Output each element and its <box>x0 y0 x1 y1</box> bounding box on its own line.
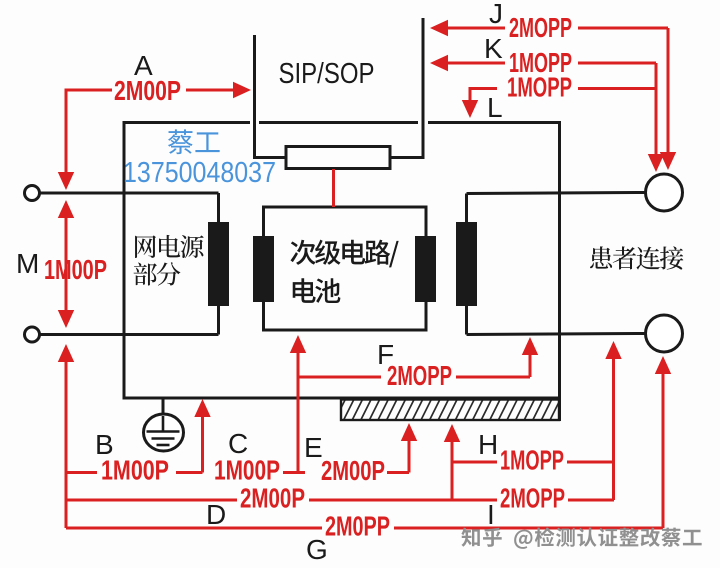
svg-text:D: D <box>206 499 226 530</box>
svg-text:2M00P: 2M00P <box>114 75 181 106</box>
svg-text:H: H <box>478 429 498 460</box>
svg-text:1M00P: 1M00P <box>44 254 107 285</box>
wire: patient circuit to lower applied-part terminal <box>467 334 646 335</box>
svg-text:2M00P: 2M00P <box>321 455 385 486</box>
label: patient connection (患者连接) <box>590 246 683 269</box>
measurement E right arrow to barrier <box>387 471 409 474</box>
secondary circuit box <box>264 207 427 330</box>
svg-text:2MOPP: 2MOPP <box>500 483 565 514</box>
SIP/SOP right lead wire <box>422 18 425 159</box>
svg-text:M: M <box>16 248 39 279</box>
svg-text:1MOPP: 1MOPP <box>500 445 564 476</box>
red bus: left vertical from neutral down to rows B/D/G <box>58 344 74 362</box>
measurement B row (1M00P) <box>66 471 97 474</box>
measurement C arrow (1M00P to enclosure bottom) <box>201 413 204 473</box>
watermark: blue 蔡工 <box>168 129 220 154</box>
label: mains part (网电源 部分) <box>135 235 204 258</box>
svg-text:K: K <box>484 33 503 64</box>
measurement F (2MOPP to patient wire) <box>298 376 381 379</box>
measurement E arrow (2M00P to secondary circuit) <box>283 471 305 474</box>
label: secondary circuit / battery (次级电路/电池) <box>290 240 398 268</box>
measurement H bracket (1MOPP) <box>451 438 454 500</box>
transformer primary winding W1 (mains side) <box>208 222 229 306</box>
measurement M line (1M00P between mains terminals) <box>58 200 74 218</box>
measurement A line (2M00P to SIP/SOP) <box>66 90 112 92</box>
protective earth ground symbol <box>162 398 165 416</box>
svg-text:SIP/SOP: SIP/SOP <box>279 58 375 90</box>
measurement D/I row (2M00P / 2MOPP) <box>66 499 237 502</box>
mains terminal node N (circle) <box>25 327 40 342</box>
wire: patient circuit to upper applied-part terminal <box>467 193 646 194</box>
measurement K (1MOPP into SIP/SOP) <box>430 55 448 71</box>
transformer winding W2 (secondary left) <box>253 236 274 302</box>
SIP/SOP left lead wire <box>253 35 256 159</box>
measurement L (1MOPP to enclosure top) <box>470 87 497 90</box>
applied part terminal upper (circle) <box>646 174 683 211</box>
measurement G row (2MOPP to applied part) <box>66 527 322 530</box>
svg-text:I: I <box>487 499 495 530</box>
mains part box right edge / transformer primary lead <box>217 193 220 335</box>
mains terminal node L (circle) <box>25 186 40 201</box>
outer enclosure box top edge (3 segments with gaps at SIP/SOP leads) <box>124 121 250 124</box>
outer enclosure box left edge <box>123 121 126 400</box>
svg-text:13750048037: 13750048037 <box>123 157 276 189</box>
red stub: SIP/SOP resistor to secondary box <box>332 169 335 207</box>
wire: neutral terminal to mains-part box bottom edge <box>40 333 219 336</box>
patient circuit lead vertical <box>465 194 468 335</box>
svg-text:2M0PP: 2M0PP <box>325 511 390 542</box>
svg-text:1M00P: 1M00P <box>101 455 169 486</box>
svg-text:1M00P: 1M00P <box>214 455 280 486</box>
svg-text:1MOPP: 1MOPP <box>507 72 572 103</box>
wire: live terminal to mains-part box top edge <box>40 192 219 195</box>
svg-text:E: E <box>304 432 323 463</box>
outer enclosure box right edge <box>558 121 561 421</box>
hatched isolation barrier bar <box>334 398 570 422</box>
watermark: zhihu credit line <box>461 527 701 549</box>
applied part terminal lower (circle) <box>646 315 683 352</box>
resistor-style SIP/SOP interface box <box>286 147 390 169</box>
svg-text:2MOPP: 2MOPP <box>387 360 452 391</box>
measurement J (2MOPP into SIP/SOP) <box>430 20 448 36</box>
svg-text:2M00P: 2M00P <box>240 483 305 514</box>
red vertical H/I to patient wire <box>612 355 615 500</box>
svg-text:J: J <box>489 0 503 29</box>
outer enclosure box bottom edge <box>123 397 562 400</box>
transformer winding W3 (secondary right) <box>415 236 436 302</box>
svg-text:L: L <box>487 92 503 123</box>
svg-text:2MOPP: 2MOPP <box>509 12 572 43</box>
transformer winding W4 (patient side) <box>456 222 477 306</box>
